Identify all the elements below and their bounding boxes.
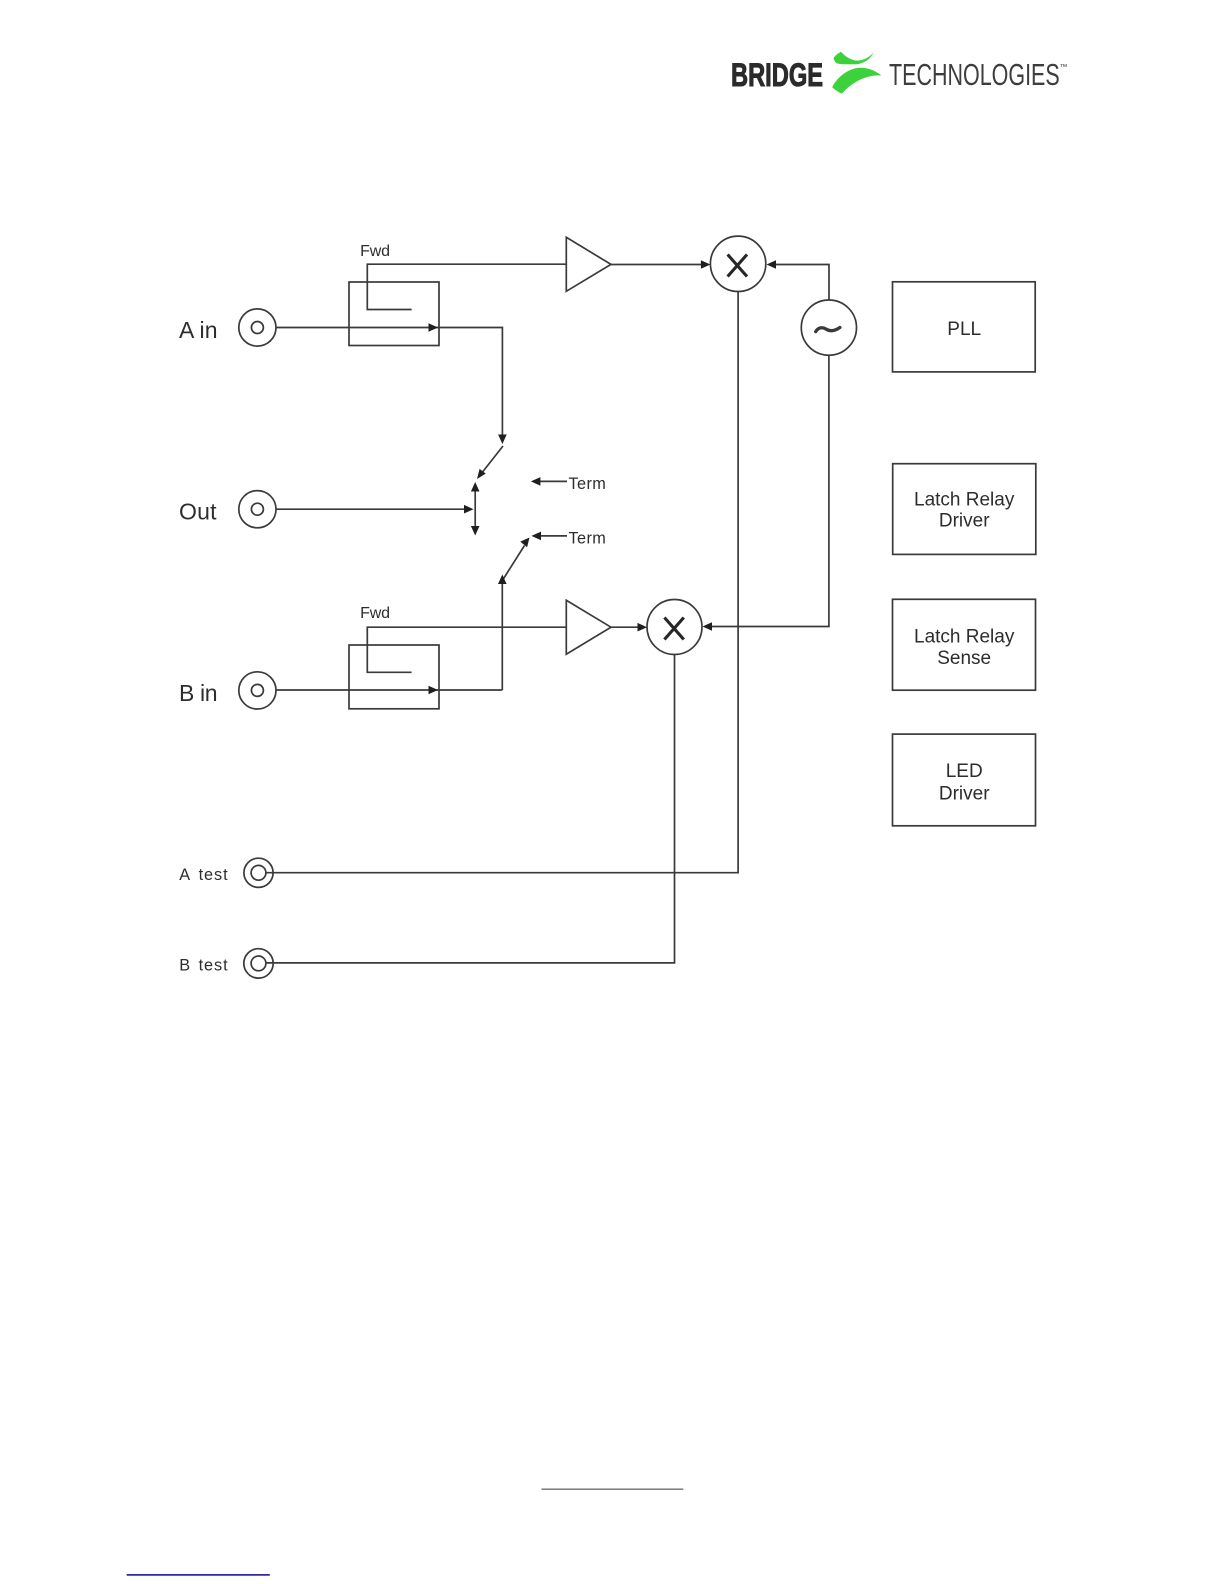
svg-text:Term: Term bbox=[569, 475, 606, 493]
svg-text:PLL: PLL bbox=[947, 319, 981, 340]
svg-text:B in: B in bbox=[179, 680, 218, 706]
svg-text:Driver: Driver bbox=[939, 783, 990, 804]
svg-text:Latch Relay: Latch Relay bbox=[914, 489, 1015, 510]
svg-text:A in: A in bbox=[179, 317, 218, 343]
svg-text:Fwd: Fwd bbox=[360, 605, 390, 622]
svg-text:Driver: Driver bbox=[939, 511, 990, 532]
svg-text:LED: LED bbox=[946, 761, 983, 782]
svg-text:Atest: Atest bbox=[179, 866, 228, 884]
svg-text:BRIDGE: BRIDGE bbox=[731, 56, 823, 93]
svg-text:™: ™ bbox=[1060, 63, 1068, 72]
svg-text:Latch Relay: Latch Relay bbox=[914, 626, 1015, 647]
svg-text:Btest: Btest bbox=[179, 956, 228, 974]
svg-text:Sense: Sense bbox=[937, 648, 991, 669]
svg-text:Fwd: Fwd bbox=[360, 243, 390, 260]
svg-text:TECHNOLOGIES: TECHNOLOGIES bbox=[889, 58, 1060, 92]
svg-text:Term: Term bbox=[569, 529, 606, 547]
svg-text:Out: Out bbox=[179, 499, 217, 525]
